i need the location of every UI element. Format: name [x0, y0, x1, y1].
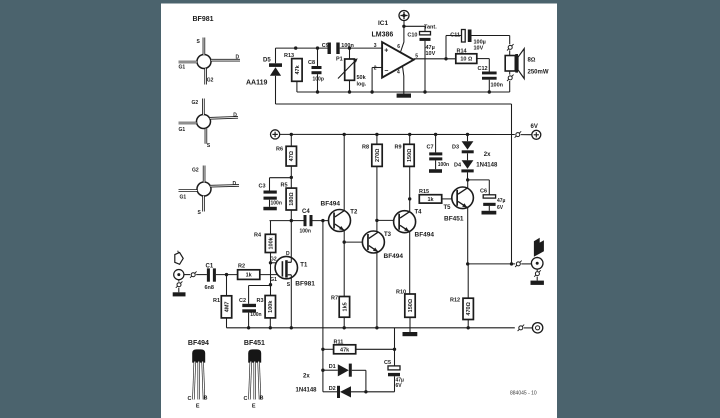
svg-text:AA119: AA119	[246, 80, 268, 87]
svg-text:270Ω: 270Ω	[375, 149, 381, 162]
svg-text:C: C	[244, 396, 248, 402]
svg-text:C9: C9	[322, 43, 329, 49]
svg-text:BF494: BF494	[321, 200, 341, 207]
svg-text:C: C	[188, 396, 192, 402]
svg-text:100n: 100n	[300, 228, 311, 234]
svg-text:6V: 6V	[497, 205, 504, 211]
svg-text:100n: 100n	[438, 162, 449, 168]
svg-text:100k: 100k	[268, 236, 274, 249]
svg-text:Tant.: Tant.	[424, 25, 437, 31]
svg-text:250mW: 250mW	[528, 70, 549, 76]
svg-text:R7: R7	[331, 296, 338, 302]
svg-text:T5: T5	[444, 205, 452, 211]
svg-text:100n: 100n	[271, 200, 282, 206]
svg-text:470Ω: 470Ω	[466, 302, 472, 315]
svg-text:47µ: 47µ	[497, 198, 506, 204]
svg-text:LM386: LM386	[372, 31, 394, 38]
svg-text:C4: C4	[302, 209, 310, 215]
svg-text:R3: R3	[257, 298, 264, 304]
svg-text:D: D	[236, 55, 240, 61]
svg-text:C7: C7	[427, 144, 434, 150]
svg-text:100n: 100n	[341, 43, 354, 49]
svg-text:D: D	[286, 251, 290, 257]
svg-text:BF494: BF494	[188, 340, 209, 347]
svg-text:log.: log.	[357, 82, 367, 88]
svg-text:47k: 47k	[295, 64, 301, 74]
svg-text:150Ω: 150Ω	[408, 299, 414, 312]
svg-text:R9: R9	[395, 145, 402, 151]
svg-text:R2: R2	[238, 263, 245, 269]
svg-text:BF451: BF451	[244, 340, 265, 347]
svg-text:C3: C3	[259, 183, 266, 189]
svg-text:R6: R6	[276, 146, 283, 152]
svg-text:G1: G1	[180, 195, 187, 201]
svg-text:2x: 2x	[303, 373, 310, 379]
svg-text:10V: 10V	[474, 46, 484, 52]
svg-text:D3: D3	[452, 145, 459, 151]
svg-text:C12: C12	[478, 66, 488, 72]
svg-text:50k: 50k	[357, 75, 367, 81]
svg-text:4: 4	[397, 70, 400, 76]
svg-text:6V: 6V	[396, 383, 403, 389]
svg-text:G2: G2	[192, 100, 199, 106]
svg-text:G1: G1	[179, 65, 186, 71]
svg-text:100n: 100n	[491, 82, 504, 88]
svg-text:884045 - 10: 884045 - 10	[510, 391, 537, 397]
svg-text:P1: P1	[336, 56, 343, 62]
svg-text:D: D	[233, 181, 237, 187]
svg-text:R1: R1	[213, 298, 220, 304]
svg-text:BF494: BF494	[384, 253, 404, 260]
svg-text:G1: G1	[270, 277, 277, 283]
svg-text:B: B	[260, 395, 264, 401]
svg-text:6: 6	[397, 44, 400, 50]
svg-text:10 Ω: 10 Ω	[460, 57, 472, 63]
svg-text:G2: G2	[192, 168, 199, 174]
svg-text:G2: G2	[207, 78, 214, 84]
svg-text:2x: 2x	[484, 152, 491, 158]
svg-text:−: −	[384, 68, 388, 75]
svg-text:C5: C5	[384, 360, 391, 366]
svg-text:8Ω: 8Ω	[528, 58, 536, 64]
svg-text:1k: 1k	[427, 197, 434, 203]
svg-text:G1: G1	[179, 127, 186, 133]
svg-text:47Ω: 47Ω	[289, 151, 295, 161]
svg-text:C11: C11	[450, 33, 460, 39]
svg-text:100p: 100p	[313, 77, 324, 83]
svg-text:R4: R4	[254, 232, 262, 238]
svg-text:3: 3	[374, 43, 377, 49]
svg-text:R8: R8	[362, 145, 369, 151]
svg-text:2: 2	[374, 66, 377, 72]
svg-text:1k: 1k	[246, 273, 253, 279]
svg-text:1k5: 1k5	[342, 302, 348, 311]
svg-text:C8: C8	[308, 60, 315, 66]
svg-text:150Ω: 150Ω	[407, 149, 413, 162]
svg-text:R12: R12	[450, 298, 460, 304]
svg-text:BF451: BF451	[444, 216, 464, 223]
svg-text:C10: C10	[407, 33, 417, 39]
svg-text:4M7: 4M7	[224, 301, 230, 312]
svg-text:D1: D1	[329, 364, 336, 370]
svg-text:D4: D4	[454, 163, 462, 169]
svg-text:1N4148: 1N4148	[296, 387, 318, 393]
svg-text:D5: D5	[263, 58, 271, 64]
svg-text:B: B	[204, 395, 208, 401]
svg-text:180Ω: 180Ω	[289, 192, 295, 205]
svg-text:T1: T1	[300, 263, 308, 269]
svg-text:BF981: BF981	[193, 16, 214, 23]
svg-text:10V: 10V	[426, 51, 436, 57]
svg-text:BF981: BF981	[295, 280, 315, 287]
svg-text:BF494: BF494	[415, 232, 435, 239]
svg-text:C6: C6	[480, 189, 487, 195]
svg-text:1N4148: 1N4148	[476, 163, 498, 169]
svg-text:E: E	[196, 404, 200, 410]
svg-text:T4: T4	[415, 210, 423, 216]
svg-text:C2: C2	[239, 298, 246, 304]
svg-text:E: E	[252, 404, 256, 410]
svg-text:100k: 100k	[268, 300, 274, 313]
svg-text:6n8: 6n8	[205, 285, 214, 291]
svg-text:6V: 6V	[531, 124, 538, 130]
svg-text:T2: T2	[350, 210, 358, 216]
svg-text:D: D	[233, 113, 237, 119]
svg-text:47k: 47k	[340, 347, 350, 353]
svg-text:+: +	[384, 47, 388, 54]
svg-text:T3: T3	[384, 232, 392, 238]
svg-text:IC1: IC1	[378, 20, 389, 27]
svg-text:100n: 100n	[250, 312, 261, 318]
svg-text:D2: D2	[329, 386, 336, 392]
